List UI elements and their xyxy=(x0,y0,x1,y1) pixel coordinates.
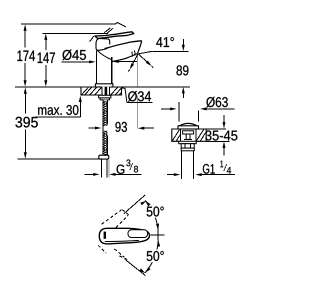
faucet body xyxy=(95,38,141,87)
dimension 147 xyxy=(45,38,47,82)
50° lower ray with arrow xyxy=(125,259,146,275)
deck top/bottom extension (drain right) xyxy=(206,128,226,130)
50° lower text xyxy=(145,250,166,263)
50° upper ray with arrow xyxy=(124,195,145,214)
ray down-left with arrow xyxy=(132,54,139,66)
gray stub extension xyxy=(108,160,110,178)
Ø63 label xyxy=(178,102,180,122)
dimension 89 xyxy=(182,39,184,47)
base block on deck xyxy=(95,84,113,87)
deck top extension line right xyxy=(122,86,191,88)
dimension 395 xyxy=(24,93,26,114)
cartridge box xyxy=(96,38,110,44)
gray extension line from spout outlet xyxy=(136,56,138,87)
body walls xyxy=(96,50,98,83)
395 bottom reference line xyxy=(18,158,99,160)
nut below deck xyxy=(99,95,111,98)
spout top edge xyxy=(105,41,142,49)
phantom tip wedge xyxy=(115,23,126,27)
50° upper arc xyxy=(145,200,158,230)
aerator ticks xyxy=(131,51,134,56)
dimension 35-45 xyxy=(223,115,225,124)
41° leader to spout tip xyxy=(138,51,153,54)
axis cross xyxy=(151,234,165,236)
spout underside xyxy=(112,54,138,62)
lever top plate (inner rounded rect) xyxy=(128,230,148,238)
drain through-deck body xyxy=(180,129,196,141)
lever phantom (open position) ticks xyxy=(90,23,126,42)
inner seam line xyxy=(105,240,139,241)
shank through deck xyxy=(102,87,110,96)
drain dome cap xyxy=(180,123,197,125)
G3/8 label xyxy=(85,173,95,175)
spout front face xyxy=(138,41,142,54)
top-view handle outline xyxy=(99,228,149,244)
drain locknut xyxy=(181,144,194,148)
phantom lever down (dashed) xyxy=(98,245,128,259)
body/spout seam curve xyxy=(97,50,111,59)
ray down-right with arrow xyxy=(138,54,149,64)
flexible hose xyxy=(103,100,108,156)
max. 30 label xyxy=(38,105,78,115)
tick bar xyxy=(104,232,106,239)
Ø34 label xyxy=(122,88,127,102)
50° lower arc xyxy=(157,240,160,247)
deck top extension line left xyxy=(15,86,81,88)
phantom lever up (dashed) xyxy=(102,210,129,228)
drain tailpipe xyxy=(181,151,183,179)
drain deck band xyxy=(172,129,206,141)
dimension 174 extension line xyxy=(21,23,115,25)
41° label xyxy=(156,37,174,47)
lever (closed) xyxy=(95,32,134,39)
drain ring xyxy=(181,148,194,151)
hose end nut xyxy=(99,155,109,159)
Ø45 label xyxy=(62,50,86,61)
G1 1/4 label xyxy=(167,174,175,176)
hatch xyxy=(82,87,122,94)
dimension 147 extension line xyxy=(43,32,109,34)
drain below-deck flange xyxy=(179,141,197,143)
dimension 93 xyxy=(88,127,98,129)
50° upper text xyxy=(145,205,166,218)
deck slab hatched band (faucet) xyxy=(81,87,122,95)
Ø45 right arrow xyxy=(117,61,137,63)
G3/8 stub xyxy=(101,159,103,177)
dimension 174 xyxy=(24,29,26,82)
band outline xyxy=(81,87,122,95)
